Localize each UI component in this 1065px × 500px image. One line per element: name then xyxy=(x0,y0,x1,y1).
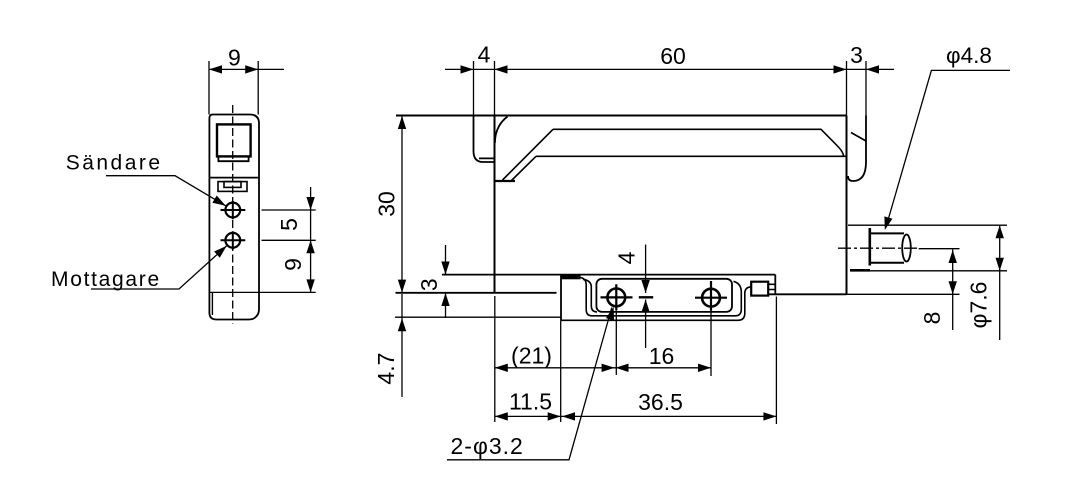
bracket right corner edge xyxy=(774,275,776,295)
svg-text:4: 4 xyxy=(614,251,640,264)
dimension 9 top extension lines xyxy=(209,61,258,115)
connector flange xyxy=(868,228,871,266)
dimension 5-9 extension lines xyxy=(209,210,315,292)
dimension phi7.6 line xyxy=(999,225,1001,340)
connector top extension line xyxy=(848,224,1007,226)
ridge band lower line xyxy=(536,155,847,157)
svg-text:5: 5 xyxy=(276,218,302,231)
receiver hole circle xyxy=(225,233,240,248)
right view right plate xyxy=(848,116,866,182)
svg-text:9: 9 xyxy=(228,45,241,71)
svg-text:8: 8 xyxy=(919,312,945,325)
left view bottom inner line xyxy=(211,292,213,315)
dimension 4 bracket tick xyxy=(639,296,653,298)
label phi4.8 arrowhead xyxy=(881,216,893,231)
bracket sheet middle line xyxy=(581,278,742,316)
dimension 11.5-36.5 line xyxy=(495,415,777,417)
svg-text:36.5: 36.5 xyxy=(638,389,683,415)
mounting hole 2 circle xyxy=(702,289,720,307)
ridge band upper left diagonal xyxy=(503,129,554,180)
flange lower extension xyxy=(560,320,562,422)
dimension 21-16 line xyxy=(495,367,711,369)
body bottom left line xyxy=(396,292,557,294)
connector end ellipse xyxy=(902,235,911,262)
dimension 3 line upper xyxy=(445,245,447,275)
bracket bottom outer line xyxy=(561,287,751,320)
right view left body edge xyxy=(494,116,496,293)
svg-text:4: 4 xyxy=(478,42,491,68)
svg-text:2-φ3.2: 2-φ3.2 xyxy=(451,433,524,459)
svg-text:Mottagare: Mottagare xyxy=(51,268,161,291)
dimension 9 top arrows xyxy=(209,65,258,73)
mounting hole 1 extension xyxy=(615,310,617,375)
receiver hole crosshair xyxy=(221,231,246,249)
left view body outline xyxy=(209,115,259,320)
left edge lower extension xyxy=(494,296,496,422)
connector bottom bold segment xyxy=(850,269,870,272)
left view terminal outer rect xyxy=(218,182,247,192)
dimension 11.5-36.5 arrows xyxy=(495,412,777,420)
bracket sheet inner left curve xyxy=(583,279,597,312)
right view top edge with extension xyxy=(396,115,847,117)
svg-text:3: 3 xyxy=(850,42,863,68)
right view right body edge xyxy=(846,116,848,295)
dimension 4 bracket lower line xyxy=(645,300,647,349)
svg-text:3: 3 xyxy=(416,278,442,291)
svg-text:11.5: 11.5 xyxy=(509,389,552,415)
svg-text:φ4.8: φ4.8 xyxy=(946,43,992,68)
bracket left flange xyxy=(560,275,562,321)
ridge band upper line xyxy=(553,129,844,156)
dimension phi7.6 arrows xyxy=(996,225,1004,271)
centerline solid extension xyxy=(919,248,960,250)
left view centerline xyxy=(232,105,234,324)
mounting hole 2 crosshair xyxy=(695,281,727,311)
label Mottagare leader xyxy=(91,246,227,289)
dimension 30 arrows xyxy=(398,116,406,293)
top dimension extension lines xyxy=(474,61,867,116)
left view window rectangle xyxy=(217,124,251,156)
svg-text:9: 9 xyxy=(280,258,306,271)
dimension 4.7 line xyxy=(401,294,403,397)
body bottom right line xyxy=(768,293,846,295)
dimension 4 bracket upper line xyxy=(645,245,647,294)
svg-text:(21): (21) xyxy=(511,343,552,369)
svg-text:φ7.6: φ7.6 xyxy=(966,282,992,329)
svg-text:60: 60 xyxy=(660,43,686,69)
label Mottagare arrowhead xyxy=(214,243,229,258)
bracket right pocket box xyxy=(751,282,768,296)
svg-text:16: 16 xyxy=(649,343,675,369)
dimension 5-9 line xyxy=(310,187,312,292)
dimension 8 line xyxy=(952,250,954,331)
dimension 4.7 extension line xyxy=(395,316,561,318)
dimension 9 top line xyxy=(209,68,284,70)
dimension 4.7 arrow xyxy=(398,318,406,331)
bracket right lower extension xyxy=(775,297,777,425)
mounting hole 2 extension xyxy=(710,311,712,377)
right view top left fillet xyxy=(495,117,508,144)
label Sandare leader xyxy=(106,176,226,206)
dimension 30 line xyxy=(401,116,403,293)
dimension 3 arrows xyxy=(441,262,449,307)
dimension 5-9 arrows xyxy=(306,197,314,292)
svg-text:30: 30 xyxy=(374,191,400,217)
sender hole crosshair xyxy=(221,201,246,219)
svg-text:4.7: 4.7 xyxy=(373,353,399,385)
connector centerline dashdot xyxy=(838,247,920,249)
dimension 21-16 arrows xyxy=(495,364,711,372)
bracket right stubs xyxy=(768,284,775,289)
connector bottom extension line xyxy=(870,270,1007,272)
right view left plate xyxy=(474,116,495,163)
dimension 3 line lower xyxy=(445,293,447,318)
top dimension line 4-60-3 xyxy=(445,68,894,70)
mounting hole 1 crosshair xyxy=(601,284,633,310)
left view window step xyxy=(218,156,248,161)
label 2-phi3.2 arrowhead xyxy=(606,306,618,321)
body bottom right extension xyxy=(847,293,960,295)
bracket tab filled xyxy=(561,274,581,279)
bracket top line xyxy=(442,274,775,276)
top dimension arrows xyxy=(461,65,880,73)
right view right plate notch xyxy=(851,133,866,142)
left view terminal inner rect xyxy=(224,182,241,188)
svg-text:Sändare: Sändare xyxy=(66,151,163,174)
label phi4.8 leader xyxy=(886,70,1010,227)
mounting hole 1 circle xyxy=(607,289,625,307)
label 2-phi3.2 leader xyxy=(447,308,612,460)
dimension 4 bracket arrows xyxy=(641,280,649,313)
ridge band bottom left line xyxy=(496,180,516,182)
left view parting line xyxy=(209,177,259,179)
ridge band lower left diagonal xyxy=(511,156,537,181)
label Sandare arrowhead xyxy=(212,196,227,210)
dimension 8 arrows xyxy=(949,250,957,294)
bracket plate xyxy=(596,279,732,312)
sender hole circle xyxy=(225,203,240,218)
connector barrel xyxy=(870,233,904,262)
